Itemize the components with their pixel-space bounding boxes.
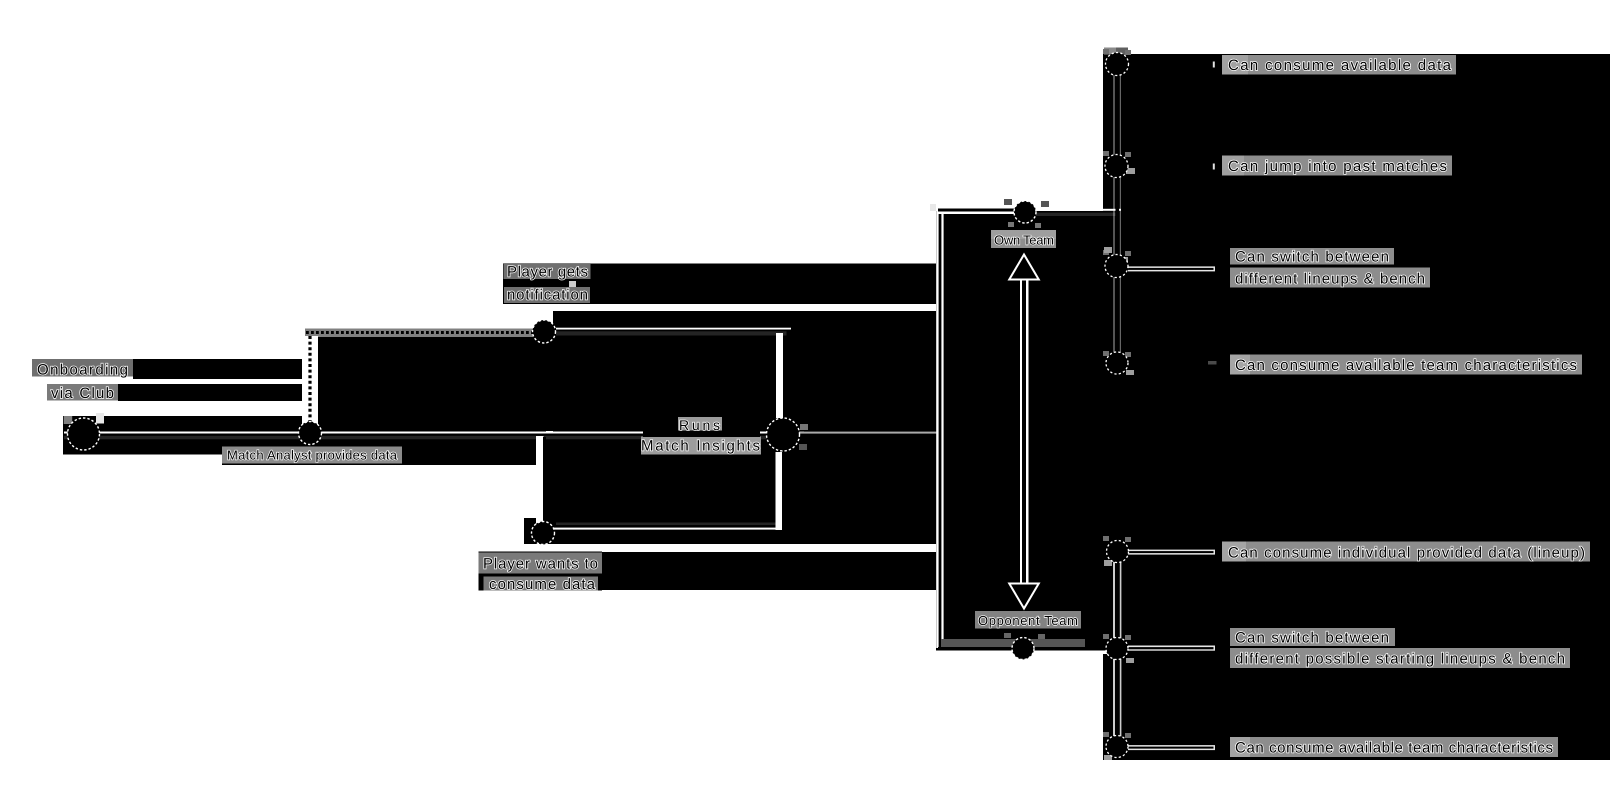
junk: circle5 squares bbox=[800, 424, 808, 430]
wire: stem down to circle3 bbox=[536, 436, 544, 525]
wire: loop up to circle5 bbox=[776, 452, 784, 530]
svg-text:Can switch between: Can switch between bbox=[1235, 630, 1389, 647]
label box: leaf 6 bbox=[1230, 628, 1395, 646]
junk squares leaf circles bbox=[1103, 49, 1131, 738]
wire: leaf vertical own team bbox=[1113, 63, 1114, 366]
wire: loop bottom bbox=[550, 528, 782, 530]
svg-text:Onboarding: Onboarding bbox=[37, 362, 128, 379]
black band: consume data row bbox=[602, 552, 936, 590]
svg-text:consume data: consume data bbox=[489, 576, 596, 593]
svg-text:Player wants to: Player wants to bbox=[483, 556, 598, 573]
label box: leaf 5 bbox=[1222, 542, 1590, 562]
leaf circle 6 bbox=[1106, 638, 1128, 660]
wire: leaf row 6 bbox=[1128, 646, 1215, 651]
black region box interior bbox=[318, 331, 790, 431]
dotted box left band bbox=[302, 336, 318, 428]
leaf circle 4 bbox=[1106, 352, 1128, 374]
leaf circle 3 bbox=[1105, 255, 1128, 278]
label box: opponent team bbox=[975, 611, 1081, 629]
svg-text:Can consume available team cha: Can consume available team characteristi… bbox=[1235, 357, 1577, 374]
node circle: start onboarding bbox=[68, 418, 100, 450]
arrow shaft bbox=[1020, 268, 1029, 588]
junk: opponent squares bbox=[1004, 633, 1011, 638]
svg-text:notification: notification bbox=[507, 287, 588, 304]
wire: leaf row 5 bbox=[1128, 550, 1215, 555]
label box: leaf 1 bbox=[1222, 55, 1456, 75]
black band: notification row bbox=[503, 264, 936, 305]
gray band opponent row bbox=[941, 639, 1085, 647]
svg-text:Can consume available team cha: Can consume available team characteristi… bbox=[1235, 740, 1553, 757]
black slab right bbox=[1103, 54, 1610, 760]
wire: journey main line bbox=[64, 432, 804, 434]
wire: own team to leaf line bbox=[1036, 209, 1121, 211]
node circle: runs match insights bbox=[767, 418, 800, 451]
node circle: own team bbox=[1014, 201, 1036, 223]
black band: onboarding row2 bbox=[118, 384, 312, 401]
label box: own team bbox=[991, 230, 1056, 248]
wire: leaf row 3 bbox=[1128, 266, 1215, 271]
svg-text:Runs: Runs bbox=[679, 417, 720, 433]
junk block above leaf circle 1 bbox=[1104, 48, 1116, 55]
junk light block notification gap bbox=[569, 281, 576, 288]
node circle: match analyst bbox=[299, 422, 322, 445]
dark strip between runs boxes bbox=[643, 431, 760, 438]
leaf circle 2 bbox=[1105, 155, 1128, 178]
label box: match analyst provides data bbox=[222, 447, 402, 464]
label box: player gets notification bbox=[504, 264, 591, 279]
node circle: player gets notification bbox=[533, 320, 556, 343]
black block behind circle3 bbox=[524, 518, 560, 544]
bullet tick 1 bbox=[1213, 62, 1215, 68]
label box: leaf 2 bbox=[1222, 156, 1452, 176]
bullet dash 4 bbox=[1208, 361, 1217, 365]
leaf circle 1 bbox=[1106, 53, 1129, 76]
label box: leaf 4 bbox=[1230, 355, 1582, 375]
node circle: player wants to consume bbox=[532, 522, 555, 545]
svg-text:Opponent Team: Opponent Team bbox=[978, 613, 1078, 628]
dotted box top band bbox=[305, 329, 533, 338]
wire: leaf row 7 bbox=[1128, 745, 1215, 750]
svg-text:different lineups & bench: different lineups & bench bbox=[1235, 271, 1425, 288]
svg-text:Can switch between: Can switch between bbox=[1235, 249, 1389, 266]
svg-text:Own Team: Own Team bbox=[994, 233, 1054, 248]
wire: trunk vertical bbox=[936, 207, 943, 648]
label box: runs match insights bbox=[678, 417, 722, 433]
black band: journey circle row mid bbox=[222, 416, 546, 465]
node circle: opponent team bbox=[1012, 638, 1034, 660]
black region upper mid bbox=[553, 311, 936, 432]
svg-text:Match Analyst provides data: Match Analyst provides data bbox=[227, 448, 398, 463]
junk: own team squares bbox=[1004, 199, 1012, 205]
svg-text:different possible starting li: different possible starting lineups & be… bbox=[1235, 651, 1565, 668]
label box: leaf 3 bbox=[1230, 248, 1394, 265]
svg-text:Can consume individual provide: Can consume individual provided data (li… bbox=[1228, 545, 1585, 562]
wire: leaf vertical opponent bbox=[1113, 551, 1115, 747]
junk: trunk corner bbox=[930, 204, 936, 211]
bullet tick 2 bbox=[1213, 164, 1215, 170]
label box: player wants to consume data bbox=[479, 552, 603, 591]
black region trunk area bbox=[936, 211, 1103, 651]
wire: trunk to opponent bbox=[936, 651, 1117, 655]
label box: leaf 7 bbox=[1230, 737, 1558, 757]
wire: trunk to own team bbox=[938, 206, 1016, 214]
black region loop interior bbox=[546, 432, 941, 544]
leaf circle 5 bbox=[1107, 541, 1129, 563]
wire: corner down to circle5 bbox=[776, 333, 783, 418]
wire: circle4 to corner bbox=[556, 328, 791, 330]
dotted line: box top bbox=[306, 331, 533, 334]
black band: onboarding row1 bbox=[133, 359, 312, 379]
arrowhead up bbox=[1008, 253, 1041, 281]
black band: journey circle row left bbox=[63, 416, 222, 455]
label box: onboarding bbox=[32, 359, 133, 377]
arrowhead down bbox=[1008, 583, 1041, 611]
svg-text:Can jump into past matches: Can jump into past matches bbox=[1228, 158, 1447, 175]
svg-text:Player gets: Player gets bbox=[507, 264, 588, 281]
junk near start circle bbox=[64, 416, 72, 424]
leaf circle 7 bbox=[1106, 736, 1128, 758]
dotted line: box left bbox=[308, 336, 311, 425]
